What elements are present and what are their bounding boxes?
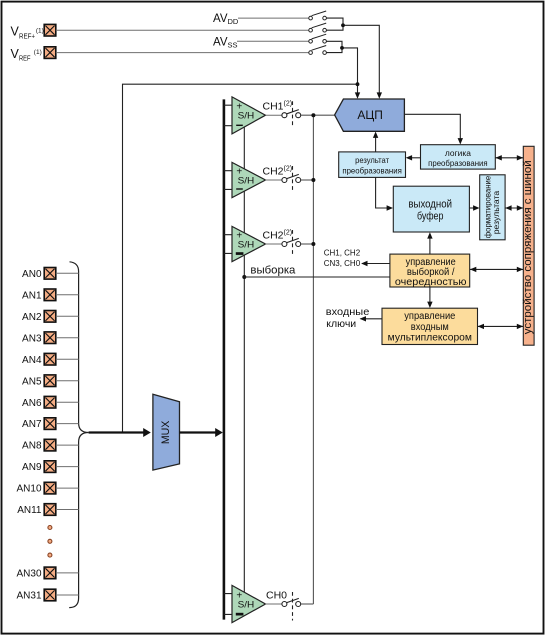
switch VREF+ <box>309 23 327 32</box>
arrow to input switches label <box>360 316 366 321</box>
svg-text:AN5: AN5 <box>22 376 42 387</box>
svg-text:AN2: AN2 <box>22 312 42 323</box>
svg-text:(1): (1) <box>34 49 42 56</box>
switch CH1 <box>282 110 301 118</box>
block sample sequencer control <box>390 254 470 288</box>
dashed sample line CH2 <box>292 166 294 192</box>
switch VREF- <box>309 46 327 55</box>
pin VREF+ <box>11 24 56 40</box>
wire AN2 <box>56 315 79 317</box>
pin AN10 <box>16 482 55 494</box>
junction bus CH3 <box>311 242 315 246</box>
svg-text:AN30: AN30 <box>16 569 41 580</box>
svg-text:преобразования: преобразования <box>342 166 402 176</box>
wire AN4 <box>56 358 79 360</box>
junction pair2 <box>340 46 344 50</box>
svg-text:REF+: REF+ <box>19 33 35 40</box>
wire AN9 <box>56 466 79 468</box>
dashed sample line CH3 <box>292 230 294 256</box>
pin AN9 <box>22 461 56 473</box>
arrows mux control/bus <box>478 324 484 329</box>
svg-text:AN8: AN8 <box>22 441 42 452</box>
wire AN5 <box>56 380 79 382</box>
arrow into ADC top right <box>377 92 382 98</box>
switch CH3 <box>282 238 301 246</box>
wire VREF+ to switch <box>56 29 309 31</box>
wire mux control to bus unit <box>478 325 524 327</box>
svg-text:результат: результат <box>355 155 389 165</box>
arrow to channel labels <box>361 261 367 266</box>
brace AN bus <box>69 262 88 608</box>
svg-text:управление: управление <box>404 311 456 322</box>
junction pair1 <box>341 23 345 27</box>
svg-text:CH1, CH2: CH1, CH2 <box>324 249 361 258</box>
switch AVSS <box>309 34 327 43</box>
wire result to output buffer <box>376 177 387 208</box>
svg-text:AN10: AN10 <box>16 484 41 495</box>
pin AN3 <box>22 332 56 344</box>
wire CH0 to bus <box>301 603 314 605</box>
wire ADC input bus <box>312 115 314 604</box>
svg-text:S/H: S/H <box>238 175 255 185</box>
wire sequencer to buffer <box>429 238 431 255</box>
svg-text:устройство сопряжения с шиной: устройство сопряжения с шиной <box>522 160 534 334</box>
wire buffer to formatter <box>469 207 474 209</box>
ADC block <box>335 99 405 131</box>
wire analog bus vertical <box>223 99 226 619</box>
pin AN31 <box>16 589 55 601</box>
wire AN8 <box>56 444 79 446</box>
op-amp S/H CH3 <box>232 226 266 261</box>
pin AN5 <box>22 375 56 387</box>
wire AVSS to switch <box>237 40 309 42</box>
wire AN31 <box>56 594 79 596</box>
wire stubs CH0 <box>224 594 232 615</box>
switch CH2 <box>282 174 301 182</box>
svg-text:выходной: выходной <box>408 199 452 211</box>
svg-text:AVSS: AVSS <box>213 36 238 49</box>
wire mux control to input switches label <box>361 318 383 320</box>
wire pair2 to ADC ref- <box>326 41 357 93</box>
wire MUX output <box>180 431 217 433</box>
arrows sequencer/bus <box>470 267 476 272</box>
svg-text:CH2(2): CH2(2) <box>263 229 293 241</box>
op-amp S/H CH1 <box>232 97 266 134</box>
wire CH1 out <box>266 114 282 116</box>
svg-text:CH2(2): CH2(2) <box>263 165 293 177</box>
svg-text:CH1(2): CH1(2) <box>263 100 293 112</box>
svg-text:АЦП: АЦП <box>357 108 383 122</box>
arrow into conversion logic <box>458 138 463 144</box>
svg-text:выборка: выборка <box>250 265 295 277</box>
wire stubs CH2 <box>224 171 232 190</box>
svg-text:CN3, CH0: CN3, CH0 <box>324 259 361 268</box>
arrow into formatter <box>473 205 479 210</box>
arrow MUX out to bus <box>215 428 223 437</box>
svg-text:входным: входным <box>411 322 449 333</box>
arrows formatter/bus <box>505 205 511 210</box>
wire vref- link to mux input <box>123 84 358 432</box>
wire sample control to sequencer <box>244 276 390 278</box>
junction bus CH1 <box>311 113 315 117</box>
wire stubs CH3 <box>224 235 232 254</box>
wire VREF- to switch <box>56 52 309 54</box>
arrow into ADC bottom <box>373 132 378 138</box>
svg-text:AN31: AN31 <box>16 591 41 602</box>
junction vref- link <box>356 82 360 86</box>
wire CH2 to bus <box>301 179 314 181</box>
block bus interface <box>522 146 534 345</box>
wire CH3 out <box>266 243 282 245</box>
block output buffer <box>393 186 469 232</box>
wire sample control chain <box>243 127 245 592</box>
pin AN11 <box>17 504 56 516</box>
wire CH1 to ADC <box>301 114 335 116</box>
arrow into mux control <box>427 302 432 308</box>
svg-text:преобразования: преобразования <box>428 158 488 168</box>
dashed sample line CH0 <box>292 592 294 621</box>
wire stubs CH1 <box>224 105 232 126</box>
svg-text:AN7: AN7 <box>22 419 42 430</box>
wire result to ADC <box>375 137 377 152</box>
block input mux control <box>382 308 478 344</box>
block conversion result <box>339 152 406 178</box>
pin AN7 <box>22 418 56 430</box>
arrow into result <box>406 155 412 160</box>
switch CH0 <box>282 598 301 606</box>
svg-text:результата: результата <box>491 190 501 234</box>
arrow into ADC top left <box>355 92 360 98</box>
junction sample control <box>242 275 246 279</box>
pin AN6 <box>22 396 56 408</box>
svg-text:AN6: AN6 <box>22 398 42 409</box>
wire CH3 to bus <box>301 243 314 245</box>
svg-text:входные: входные <box>326 307 370 318</box>
wire logic to result <box>410 157 421 159</box>
svg-text:AN9: AN9 <box>22 462 42 473</box>
svg-text:AVDD: AVDD <box>213 13 239 26</box>
svg-text:очередностью: очередностью <box>395 277 467 288</box>
svg-text:ключи: ключи <box>326 319 356 330</box>
block conversion logic <box>421 145 496 169</box>
svg-text:AN1: AN1 <box>22 290 42 301</box>
wire AN3 <box>56 337 79 339</box>
svg-text:AN3: AN3 <box>22 333 42 344</box>
pin VREF- <box>11 47 56 63</box>
svg-text:AN0: AN0 <box>22 269 42 280</box>
pin AN4 <box>22 353 56 365</box>
pin AN8 <box>22 439 56 451</box>
svg-text:S/H: S/H <box>238 599 255 609</box>
wire AN10 <box>56 487 79 489</box>
junction bus CH2 <box>311 178 315 182</box>
wire formatter to bus unit <box>505 207 523 209</box>
MUX block <box>153 394 180 470</box>
wire sequencer to bus unit <box>470 268 523 270</box>
op-amp S/H CH0 <box>232 585 266 622</box>
arrows logic/bus <box>495 155 501 160</box>
pin AN2 <box>22 311 56 323</box>
pin AN1 <box>22 289 56 301</box>
wire AN7 <box>56 423 79 425</box>
svg-text:S/H: S/H <box>238 111 255 121</box>
wire AN6 <box>56 401 79 403</box>
svg-text:мультиплексором: мультиплексором <box>388 333 472 344</box>
switch AVDD <box>309 11 327 20</box>
arrow into output buffer <box>387 205 393 210</box>
arrow into buffer bottom <box>427 232 432 238</box>
svg-text:логика: логика <box>445 148 471 158</box>
op-amp S/H CH2 <box>232 162 266 197</box>
ellipsis dots <box>48 526 52 558</box>
wire pair1 to ADC ref+ <box>326 18 379 93</box>
pin AN30 <box>16 567 55 579</box>
svg-text:(1): (1) <box>36 27 44 34</box>
wire AN0 <box>56 272 79 274</box>
wire sequencer to channel labels <box>362 263 390 265</box>
pin AN0 <box>22 268 56 280</box>
svg-text:CH0: CH0 <box>266 590 287 602</box>
wire ADC to conversion logic <box>404 114 460 139</box>
wire sequencer to mux control <box>429 287 431 303</box>
wire AN11 <box>56 509 79 511</box>
svg-text:S/H: S/H <box>238 239 255 249</box>
block result formatter <box>480 175 505 240</box>
arrow into MUX <box>143 428 151 437</box>
svg-text:буфер: буфер <box>417 211 444 223</box>
wire logic to bus unit <box>495 157 523 159</box>
wire AVDD to switch <box>238 17 309 19</box>
svg-text:MUX: MUX <box>160 420 172 444</box>
dashed sample line CH1 <box>292 101 294 127</box>
wire MUX input <box>89 431 145 433</box>
wire AN30 <box>56 572 79 574</box>
wire CH2 out <box>266 179 282 181</box>
wire AN1 <box>56 294 79 296</box>
svg-text:AN11: AN11 <box>17 505 42 516</box>
wire CH0 out <box>266 603 282 605</box>
svg-text:REF: REF <box>19 56 31 63</box>
svg-text:AN4: AN4 <box>22 355 42 366</box>
